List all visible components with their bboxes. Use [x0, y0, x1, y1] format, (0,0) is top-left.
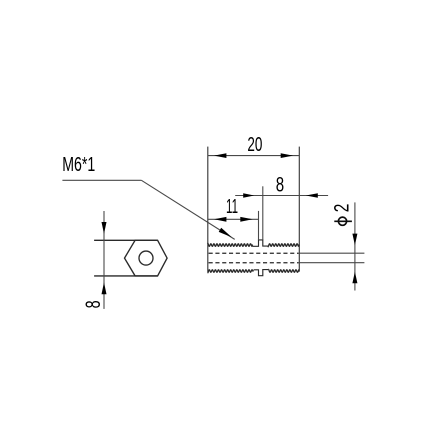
dimension 20: dimension line — [208, 155, 299, 157]
leader arrowhead — [219, 228, 232, 238]
dimension phi2: upper extension line — [299, 252, 364, 254]
dimension 11: right arrow — [240, 217, 252, 222]
dimension phi2: lower extension line — [299, 262, 364, 264]
right view: bottom collar tab outline — [254, 270, 269, 276]
left view: hexagon — [125, 240, 168, 276]
right view: right edge / extension line — [298, 147, 300, 271]
right view: bottom-right thread zigzag — [269, 269, 300, 272]
leader line diagonal — [141, 180, 234, 239]
dimension 8 (left view): bottom arrow — [102, 282, 107, 294]
right view: left edge / extension line — [207, 147, 209, 272]
dimension 8 (right view): left arrow (outside, pointing right) — [243, 193, 254, 198]
right view: lower hidden bore dashed line — [209, 262, 299, 264]
svg-text:8: 8 — [276, 173, 284, 197]
dimension phi2: diameter symbol circle — [338, 217, 346, 225]
left view: top outline line — [94, 239, 158, 241]
dimension 20: left arrow — [214, 153, 226, 158]
svg-text:M6*1: M6*1 — [62, 154, 95, 176]
dimension phi2: top arrow (pointing down) — [352, 234, 357, 246]
dimension 8 (left view): dimension line — [103, 211, 105, 309]
right view: upper hidden bore dashed line — [209, 252, 299, 254]
dimension 8 (right view): right arrow (outside, pointing left) — [306, 193, 318, 198]
leader underline for M6*1 — [62, 179, 141, 181]
dimension phi2: diameter symbol bar — [334, 220, 352, 222]
svg-text:2: 2 — [330, 204, 354, 213]
dimension 8 (right view): left extension line — [262, 186, 264, 240]
left view: bottom outline line — [94, 275, 158, 277]
dimension 20: right arrow — [281, 153, 293, 158]
svg-text:8: 8 — [81, 300, 105, 308]
right view: top collar outline — [253, 240, 269, 246]
dimension 8 (left view): top arrow — [102, 222, 107, 234]
right view: top-left thread zigzag — [208, 243, 253, 246]
dimension 11: left arrow — [214, 217, 226, 222]
left view: bore circle — [139, 251, 153, 265]
dimension 11: dimension line — [208, 218, 259, 220]
dimension phi2: bottom arrow (pointing up) — [352, 272, 357, 284]
svg-text:11: 11 — [226, 196, 238, 218]
dimension 8 (right view): dimension line — [235, 195, 328, 197]
dimension 11: right extension line — [258, 211, 260, 240]
dimension phi2: dimension line — [354, 202, 356, 290]
right view: bottom-left thread zigzag — [208, 270, 254, 273]
right view: top-right thread zigzag — [268, 244, 299, 247]
svg-text:20: 20 — [247, 133, 262, 156]
